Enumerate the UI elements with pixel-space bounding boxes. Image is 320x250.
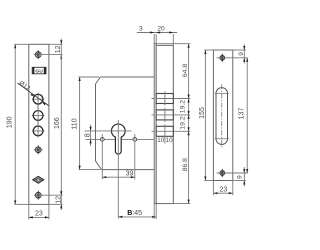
dim 9 top <box>233 44 246 63</box>
case outline <box>96 77 155 170</box>
screw hole top <box>34 50 43 59</box>
dim 9 bottom <box>233 167 246 186</box>
euro cylinder <box>111 124 125 154</box>
hub centre line <box>85 130 132 132</box>
svg-text:19.2: 19.2 <box>179 116 186 129</box>
bolt centre lines <box>152 98 191 100</box>
svg-text:23: 23 <box>35 211 43 218</box>
bolt box 1 <box>156 94 173 104</box>
case depth box <box>156 45 173 203</box>
dim 12 top <box>55 39 63 61</box>
diamond emblem <box>33 176 44 183</box>
hole crosshairs <box>32 98 45 100</box>
extension lines left <box>14 43 29 45</box>
dim 166 <box>54 55 63 196</box>
svg-text:137: 137 <box>239 108 246 120</box>
svg-text:86.8: 86.8 <box>182 158 189 171</box>
svg-text:10: 10 <box>166 137 173 144</box>
svg-text:39: 39 <box>126 170 134 177</box>
right dimension chain extension lines <box>157 43 191 45</box>
bolt centre lines inside boxes <box>156 92 173 139</box>
dim 19.2 lower <box>179 115 189 131</box>
faceplate outline <box>29 44 49 204</box>
bolt box 2 <box>156 110 173 120</box>
dim 23 strike <box>213 181 232 196</box>
svg-text:3: 3 <box>139 25 143 32</box>
svg-text:9: 9 <box>237 175 244 179</box>
strike screw bottom <box>217 172 248 174</box>
svg-text:GU: GU <box>35 68 43 74</box>
bolt box 3 <box>156 126 173 136</box>
fixing screw right <box>133 138 137 142</box>
svg-text:B:45: B:45 <box>127 210 142 217</box>
faceplate strip <box>154 44 156 204</box>
strip extension below <box>153 204 155 219</box>
leader from top screw to 12 dim <box>38 54 62 56</box>
slot centre line <box>221 84 223 148</box>
hole 1 <box>33 94 43 104</box>
dim 86.8 <box>182 131 190 203</box>
hub centre line over cylinder <box>111 130 126 132</box>
cylinder vertical centre line <box>117 120 119 219</box>
screw hole bottom <box>34 191 43 200</box>
svg-text:110: 110 <box>71 118 78 129</box>
svg-text:155: 155 <box>199 107 206 119</box>
dim 23 bottom faceplate <box>29 204 49 219</box>
hole 3 <box>33 126 43 136</box>
GU logo <box>32 67 46 74</box>
dim 155 <box>199 50 214 181</box>
svg-text:12: 12 <box>56 196 63 204</box>
leader across circle 1 <box>33 95 48 106</box>
leader from bottom screw to 12 dim <box>38 194 62 196</box>
svg-text:10: 10 <box>157 137 164 144</box>
svg-text:64.8: 64.8 <box>182 64 189 77</box>
screw hole middle <box>34 145 43 154</box>
svg-text:9: 9 <box>238 52 245 56</box>
fixing screw left <box>100 138 104 142</box>
dim 8 <box>84 125 91 146</box>
dim 110 <box>71 77 100 170</box>
svg-text:166: 166 <box>54 117 61 129</box>
svg-text:12: 12 <box>55 45 62 53</box>
diameter leader line <box>18 83 49 106</box>
hole 2 <box>33 111 43 121</box>
dim 12 bottom <box>56 190 63 211</box>
slot <box>216 88 228 145</box>
strike screw top <box>217 57 248 59</box>
screw centre line <box>86 138 155 140</box>
extension lines right of plate <box>49 43 63 45</box>
dim 39 <box>102 170 135 178</box>
dim B:45 <box>118 210 156 218</box>
svg-text:190: 190 <box>6 116 13 128</box>
slot tangent ticks <box>215 92 230 94</box>
svg-text:23: 23 <box>220 187 228 194</box>
crosshair re-draw inside holes <box>34 95 43 136</box>
svg-text:8: 8 <box>84 133 91 137</box>
strike plate outline <box>213 50 232 181</box>
svg-text:20: 20 <box>157 25 165 32</box>
arrowheads on circle <box>31 93 35 96</box>
svg-text:19.2: 19.2 <box>179 100 186 113</box>
dim 64.8 <box>182 44 190 99</box>
dim 137 <box>239 58 249 173</box>
right chain line <box>188 44 190 204</box>
vertical centerline through the three holes <box>37 93 39 138</box>
dim 190 <box>6 44 16 204</box>
dim 3 and 20 top <box>137 25 177 45</box>
dim 19.2 upper <box>179 99 189 115</box>
